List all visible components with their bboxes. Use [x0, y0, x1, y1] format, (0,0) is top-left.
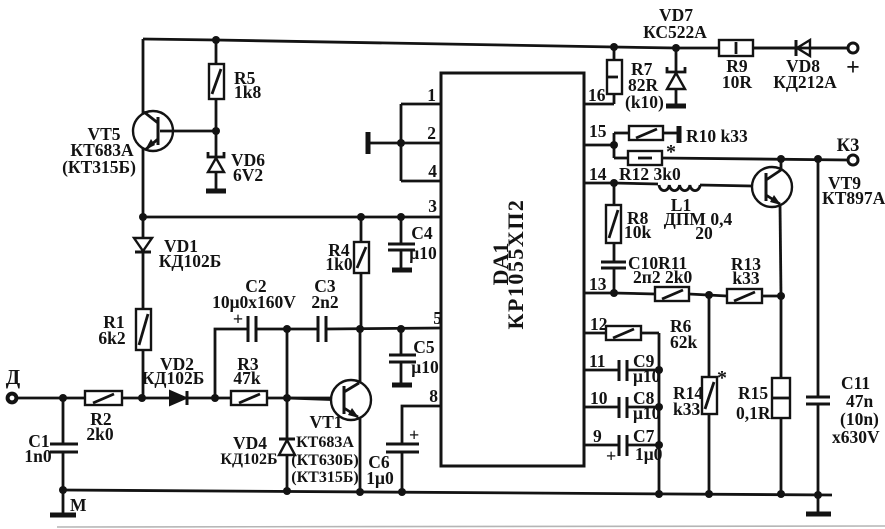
svg-text:10: 10: [590, 388, 608, 408]
pin 1: [401, 103, 441, 106]
wire VT5 collector from rail: [142, 39, 145, 114]
node rail R14: [705, 490, 713, 498]
svg-text:0,1R: 0,1R: [736, 403, 771, 423]
svg-text:1k0: 1k0: [325, 254, 352, 274]
node VD4 VT1 base junction: [283, 394, 291, 402]
node R11 R13 junction: [705, 291, 713, 299]
capacitor C11 47n: [806, 159, 880, 514]
svg-text:9: 9: [593, 426, 602, 446]
svg-text:(10n): (10n): [840, 409, 879, 429]
svg-text:КТ897А: КТ897А: [822, 188, 885, 208]
resistor R6 62k: [606, 316, 698, 352]
wire C2 to C3: [256, 328, 318, 331]
svg-text:(КТ630Б): (КТ630Б): [291, 452, 359, 469]
svg-text:20: 20: [695, 223, 713, 243]
wire pin3 line: [143, 216, 441, 219]
wire right bus down: [658, 333, 661, 494]
node pin3 R4 junction: [357, 213, 365, 221]
svg-text:2n2: 2n2: [311, 292, 338, 312]
svg-text:μ10: μ10: [409, 243, 437, 263]
node rail C7 bus: [655, 490, 663, 498]
svg-text:Д: Д: [6, 365, 21, 389]
node rail C11: [814, 491, 822, 499]
IC DA1 KR1055XP2: [441, 73, 584, 466]
wire top rail to plus terminal: [809, 47, 848, 50]
terminal plus output: [846, 43, 860, 81]
node R5 VD6 base junction: [212, 127, 220, 135]
svg-text:1k8: 1k8: [234, 82, 261, 102]
svg-text:11: 11: [589, 351, 606, 371]
svg-text:М: М: [70, 495, 87, 515]
wire VT5 emitter down to pin3 line: [142, 148, 145, 217]
resistor R4 1k0: [325, 217, 369, 329]
pin 10: [584, 406, 619, 409]
svg-text:47n: 47n: [846, 391, 874, 411]
svg-text:*: *: [717, 367, 727, 389]
pin 12: [584, 332, 606, 335]
resistor R12 3k0: [614, 151, 681, 184]
svg-text:К3: К3: [837, 136, 860, 156]
node rail C1: [59, 486, 67, 494]
svg-text:2: 2: [427, 123, 436, 143]
resistor R1 6k2: [98, 309, 151, 398]
resistor R2 2k0: [85, 391, 122, 444]
svg-text:(k10): (k10): [625, 92, 664, 112]
node pin3 VT5 junction: [139, 213, 147, 221]
node R1 bottom junction: [138, 394, 146, 402]
capacitor C2 10u0x160V: [212, 276, 296, 342]
scan artifact bottom edge line: [57, 526, 885, 527]
svg-text:62k: 62k: [670, 332, 698, 352]
node C2 branch junction: [211, 394, 219, 402]
resistor R9 10R: [719, 40, 753, 92]
node rail R15: [777, 490, 785, 498]
svg-text:14: 14: [589, 164, 607, 184]
diode VD2 КД102Б: [142, 354, 205, 405]
diode VD1 КД102Б: [134, 217, 221, 309]
wire pin2 stub terminal: [370, 142, 401, 145]
svg-text:8: 8: [429, 386, 438, 406]
diode VD4 КД102Б: [220, 398, 295, 491]
svg-text:1μ0: 1μ0: [366, 468, 394, 488]
svg-text:+: +: [846, 55, 860, 81]
node rail VT1 emitter: [356, 488, 364, 496]
node K3 VT9 collector: [777, 155, 785, 163]
svg-text:VT1: VT1: [309, 412, 342, 432]
svg-text:1n0: 1n0: [24, 446, 51, 466]
svg-text:C7: C7: [633, 426, 655, 446]
svg-text:C4: C4: [411, 223, 433, 243]
pin 11: [584, 369, 619, 372]
svg-text:*: *: [666, 141, 676, 163]
svg-text:10μ0x160V: 10μ0x160V: [212, 292, 296, 312]
pin 9: [584, 444, 619, 447]
svg-text:10R: 10R: [722, 72, 753, 92]
capacitor C8 u10: [619, 388, 661, 423]
svg-text:k33: k33: [732, 268, 759, 288]
transistor VT1: [287, 380, 371, 486]
wire VT1 emitter down: [359, 417, 362, 492]
wire VT5 base to R5/VD6 junction: [160, 130, 216, 133]
svg-text:μ10: μ10: [411, 357, 439, 377]
svg-text:1: 1: [427, 85, 436, 105]
svg-text:КД212А: КД212А: [773, 72, 837, 92]
svg-text:47k: 47k: [233, 368, 261, 388]
svg-text:КД102Б: КД102Б: [220, 451, 277, 468]
svg-text:(КТ315Б): (КТ315Б): [62, 157, 136, 177]
svg-text:+: +: [233, 309, 243, 329]
svg-text:+: +: [606, 446, 616, 466]
capacitor C4 u10: [388, 217, 437, 270]
terminal K3: [837, 136, 860, 165]
capacitor C10 2p2: [601, 253, 692, 293]
resistor R11 2k0: [614, 287, 727, 301]
svg-text:КД102Б: КД102Б: [159, 251, 222, 271]
svg-text:C11: C11: [841, 373, 870, 393]
transistor VT9: [752, 167, 885, 208]
node top rail R5 junction: [212, 36, 220, 44]
svg-text:6k2: 6k2: [98, 328, 125, 348]
pin 13: [584, 292, 614, 295]
capacitor C5 u10: [389, 329, 439, 385]
svg-text:R12 3k0: R12 3k0: [619, 164, 681, 184]
wire VT9 emitter down: [780, 204, 781, 296]
svg-text:КР1055ХП2: КР1055ХП2: [503, 199, 528, 330]
svg-text:3: 3: [428, 196, 437, 216]
wire pin5 branch down to R3 junction: [286, 329, 289, 398]
svg-text:КТ683А: КТ683А: [296, 434, 354, 451]
svg-text:6V2: 6V2: [233, 165, 263, 185]
svg-text:16: 16: [588, 85, 606, 105]
svg-text:(КТ315Б): (КТ315Б): [291, 469, 359, 486]
resistor R13 k33: [727, 254, 781, 303]
pin 4: [401, 180, 441, 183]
resistor R7 82R: [607, 47, 664, 112]
pin 2: [401, 142, 441, 145]
node C1 junction: [59, 394, 67, 402]
svg-text:+: +: [409, 425, 419, 445]
wire top rail right segment: [753, 47, 796, 50]
svg-text:VD4: VD4: [233, 433, 267, 453]
wire pins 1-2-4 bracket: [400, 104, 403, 181]
wire VT1 collector up: [359, 329, 362, 383]
capacitor C6 1u0: [366, 406, 441, 492]
svg-text:КС522А: КС522А: [643, 22, 707, 42]
node pin5 line VD4 branch: [283, 325, 291, 333]
node K3 C11 branch: [814, 155, 822, 163]
resistor R14 k33: [673, 295, 727, 494]
pin 14: [584, 182, 614, 185]
svg-text:R10 k33: R10 k33: [686, 126, 748, 146]
pin 16: [584, 103, 614, 106]
svg-text:2k0: 2k0: [86, 424, 113, 444]
node top rail VD7 junction: [672, 44, 680, 52]
wire input line: [17, 397, 332, 400]
zener VD6 6V2: [206, 131, 265, 191]
svg-text:4: 4: [428, 161, 437, 181]
svg-text:10k: 10k: [624, 222, 652, 242]
capacitor C9 u10: [619, 351, 661, 386]
resistor R3 47k: [231, 354, 267, 405]
node rail VD4: [283, 487, 291, 495]
svg-text:КД102Б: КД102Б: [142, 368, 205, 388]
wire C2 branch up: [215, 329, 248, 398]
wire VT9 collector up: [780, 159, 783, 170]
svg-text:5: 5: [433, 308, 442, 328]
resistor R5 1k8: [209, 40, 261, 131]
node pin5 C5 junction: [397, 325, 405, 333]
terminal Д input: [6, 365, 21, 402]
wire top rail left segment: [143, 39, 719, 48]
pin 15: [584, 144, 614, 147]
svg-text:R15: R15: [738, 383, 768, 403]
wire K3 line: [662, 158, 848, 160]
svg-text:x630V: x630V: [832, 427, 880, 447]
resistor R10 k33 trimmer: [614, 126, 748, 163]
node R13 R15 junction: [777, 292, 785, 300]
svg-text:k33: k33: [673, 399, 700, 419]
svg-text:15: 15: [589, 121, 607, 141]
node top rail R7 junction: [610, 43, 618, 51]
resistor R8 10k: [606, 183, 652, 261]
terminal M ground: [50, 490, 87, 515]
diode VD8 КД212А: [753, 40, 848, 92]
capacitor C1 1n0: [24, 398, 78, 490]
svg-text:2п2 2k0: 2п2 2k0: [633, 267, 692, 287]
wire C3 to pin5: [326, 328, 441, 329]
node pin3 C4 junction: [397, 213, 405, 221]
zener VD7 КС522А: [643, 5, 707, 106]
resistor R15 0.1R: [736, 296, 790, 494]
node pin5 R4 VT1 collector junction: [356, 325, 364, 333]
transistor VT5: [62, 111, 173, 177]
inductor L1: [614, 183, 752, 243]
capacitor C3 2n2: [311, 276, 338, 342]
svg-text:C5: C5: [413, 337, 435, 357]
wire bottom rail: [63, 490, 832, 495]
node rail C6: [398, 488, 406, 496]
svg-text:13: 13: [589, 274, 607, 294]
capacitor C7 1u0: [606, 426, 663, 466]
